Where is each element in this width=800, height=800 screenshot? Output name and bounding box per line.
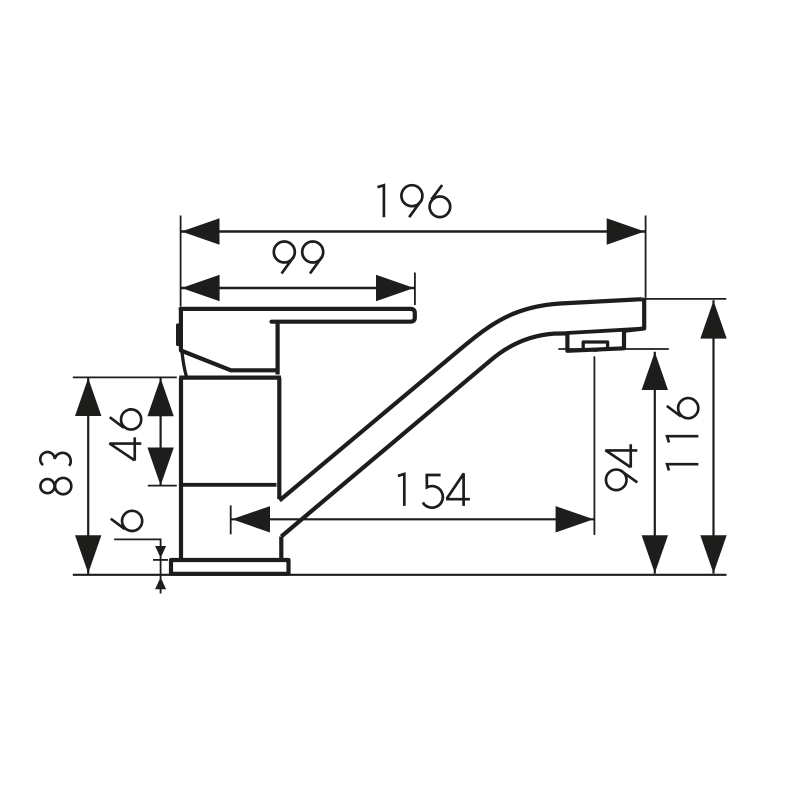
label 116 (rotated) <box>667 398 699 470</box>
dim line 46 <box>160 378 162 486</box>
arrow 83 bottom <box>75 535 101 573</box>
extension line right of 99 <box>414 273 416 306</box>
arrow 94 top <box>642 352 668 390</box>
spout bottom shelf over aerator <box>567 329 645 333</box>
spout end right edge and bottom <box>624 299 645 331</box>
faucet handle lever <box>181 309 415 322</box>
body top line <box>179 376 281 380</box>
extension line left of 196/99 <box>180 216 182 307</box>
extension tick of 6 at plate top <box>153 559 168 561</box>
dim line 196 <box>181 230 646 232</box>
arrow 99 right <box>376 275 414 301</box>
baseline <box>73 574 727 576</box>
handle side button tab <box>176 325 180 344</box>
label 99 <box>274 242 323 274</box>
arrow 154 right <box>556 506 594 532</box>
arrow 46 bottom <box>147 448 173 486</box>
body left edge <box>179 378 183 559</box>
base plate <box>171 560 289 574</box>
label 46 (rotated) <box>109 409 141 460</box>
handle base right edge <box>276 322 280 375</box>
arrow 116 top <box>700 301 726 339</box>
arrow 116 bottom <box>700 535 726 573</box>
dim line 154 <box>231 518 595 520</box>
body mid line <box>180 483 277 487</box>
dim line 94 <box>654 352 656 574</box>
label 94 (rotated) <box>605 444 637 490</box>
arrow 83 top <box>75 378 101 416</box>
body left arc below handle <box>182 352 187 377</box>
label 154 <box>398 473 470 508</box>
body right edge upper <box>277 378 281 499</box>
body right edge lower <box>279 537 283 559</box>
aerator outer box <box>567 330 624 351</box>
extension line bottom of 46 <box>148 485 177 487</box>
label 6 (rotated) <box>111 511 142 531</box>
dim line 116 <box>712 300 714 573</box>
extension line top-left for 83/46 <box>73 376 177 378</box>
arrow 46 top <box>147 378 173 416</box>
arrow 154 left <box>232 506 270 532</box>
extension line top of 94 <box>558 348 669 350</box>
small arrow 6 lower <box>155 577 166 589</box>
arrow 196 right <box>607 218 645 244</box>
small arrow 6 upper <box>155 546 166 558</box>
faucet handle base <box>181 308 278 371</box>
label 83 (rotated) <box>40 452 71 494</box>
aerator inner box <box>583 342 607 349</box>
leader line of 6 <box>114 539 160 593</box>
spout upper edge <box>280 299 642 500</box>
tick at faucet centerline for 154 <box>230 505 232 534</box>
label 196 <box>378 185 451 217</box>
arrow 99 left <box>182 275 220 301</box>
extension line aerator centerline for 154 <box>593 356 595 535</box>
extension line right of 196 <box>645 216 647 298</box>
aerator inner arc <box>586 348 607 350</box>
spout lower edge <box>281 333 568 536</box>
arrow 196 left <box>182 218 220 244</box>
dim line 99 <box>181 287 415 289</box>
arrow 94 bottom <box>642 535 668 573</box>
dim line 83 <box>87 377 89 574</box>
extension line top of 116 <box>644 298 727 300</box>
